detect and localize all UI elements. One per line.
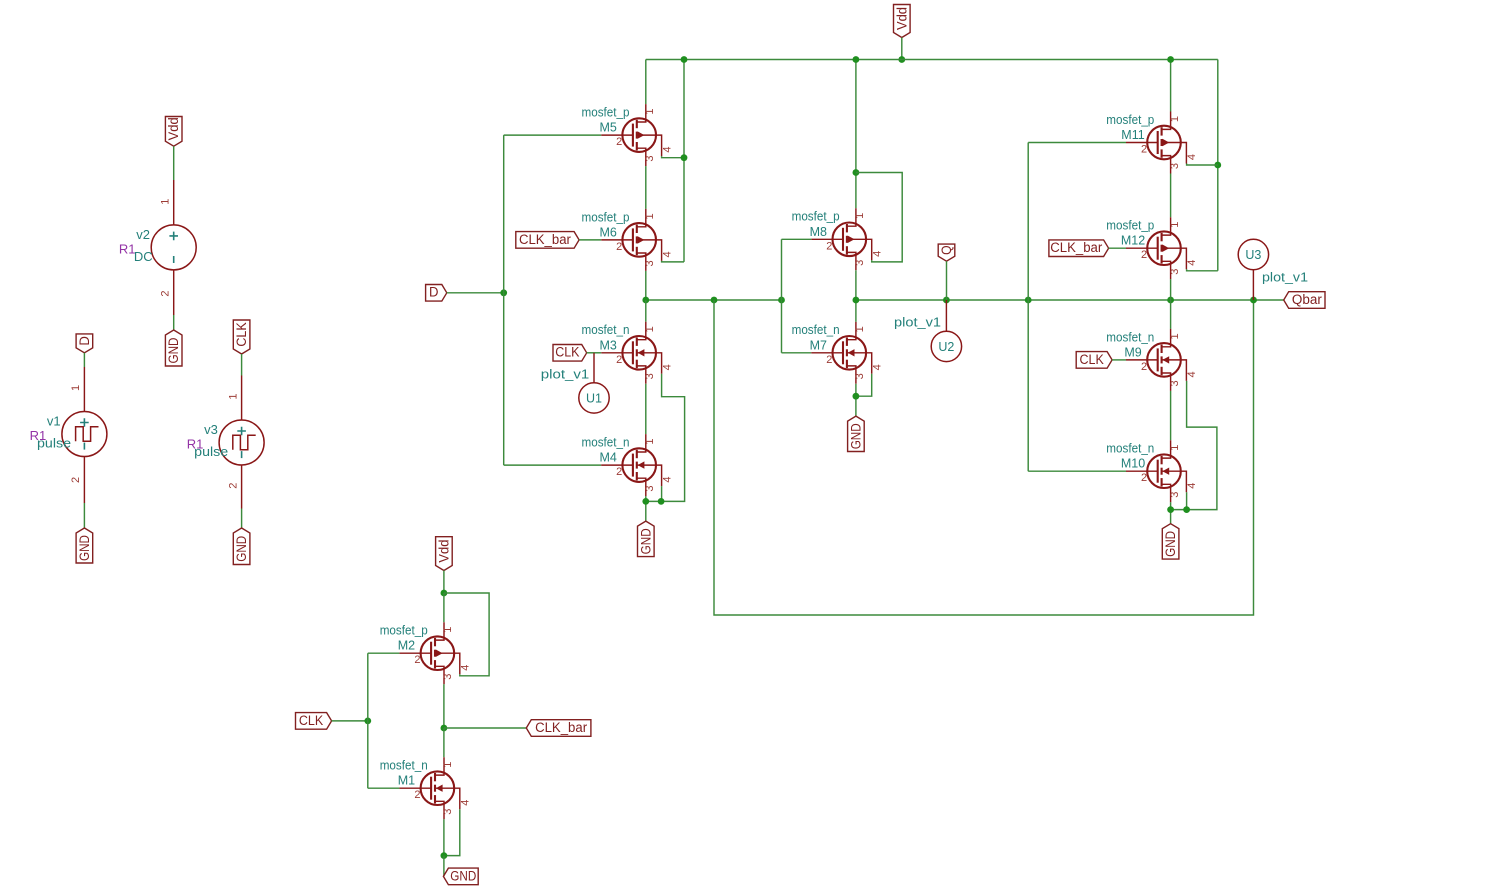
wire feedback loop xyxy=(714,300,1254,615)
svg-text:mosfet_p: mosfet_p xyxy=(380,624,428,638)
svg-text:pulse: pulse xyxy=(37,435,71,450)
svg-text:Vdd: Vdd xyxy=(166,117,181,140)
n-MOSFET M9 xyxy=(1126,329,1186,391)
wire Q/Qbar bus xyxy=(856,299,1284,301)
svg-text:mosfet_p: mosfet_p xyxy=(792,210,840,224)
svg-text:CLK_bar: CLK_bar xyxy=(1050,240,1102,255)
junction Q bus / M12-M9 xyxy=(1167,297,1174,304)
svg-text:2: 2 xyxy=(616,136,622,148)
wire rail to M11/M12 bulk xyxy=(1217,60,1219,271)
svg-text:1: 1 xyxy=(70,385,82,391)
svg-text:M9: M9 xyxy=(1124,345,1141,359)
wire M12 bulk to riser xyxy=(1187,269,1218,271)
voltage probe U3 xyxy=(1238,239,1268,300)
wire riser to M2 gate xyxy=(368,652,400,654)
svg-text:1: 1 xyxy=(442,627,454,633)
svg-text:3: 3 xyxy=(1169,269,1181,275)
svg-text:1: 1 xyxy=(854,326,866,332)
wire M7 source to GND xyxy=(855,384,857,416)
voltage source v2 xyxy=(151,225,196,270)
hierarchical label Vdd (v2) xyxy=(165,117,182,147)
wire Q label stem xyxy=(946,261,948,300)
svg-text:2: 2 xyxy=(1141,144,1147,156)
svg-text:2: 2 xyxy=(616,466,622,478)
svg-text:CLK_bar: CLK_bar xyxy=(519,232,571,247)
junction M7 source / bulk xyxy=(853,393,860,400)
wire GND node to label xyxy=(443,856,445,877)
svg-text:M12: M12 xyxy=(1121,234,1145,248)
wire rail to M11 drain xyxy=(1170,60,1172,112)
svg-text:1: 1 xyxy=(1169,445,1181,451)
p-MOSFET M5 xyxy=(601,104,661,166)
svg-text:Qbar: Qbar xyxy=(1292,292,1323,307)
n-MOSFET M4 xyxy=(601,434,661,496)
wire M6 bulk to riser xyxy=(662,261,684,262)
svg-text:4: 4 xyxy=(872,251,884,257)
svg-text:3: 3 xyxy=(644,373,656,379)
wire M4 source to GND xyxy=(645,496,647,521)
svg-text:2: 2 xyxy=(1141,361,1147,373)
junction Vdd rail / label xyxy=(898,56,905,63)
hierarchical label CLK_bar (inverter output) xyxy=(526,720,591,737)
pin 1 of v1 xyxy=(83,367,85,412)
svg-text:GND: GND xyxy=(848,423,863,449)
hierarchical label GND (M1) xyxy=(443,868,478,885)
svg-text:3: 3 xyxy=(854,373,866,379)
hierarchical label GND (v1) xyxy=(76,528,93,563)
wire CLK label to gate riser xyxy=(332,720,368,722)
junction M1 source / GND xyxy=(441,852,448,859)
n-MOSFET M7 xyxy=(811,322,871,384)
svg-text:3: 3 xyxy=(1169,163,1181,169)
wire M11-M10 gate riser xyxy=(1027,143,1029,472)
svg-text:1: 1 xyxy=(442,762,454,768)
p-MOSFET M11 xyxy=(1126,112,1186,174)
junction M5 bulk / riser xyxy=(681,154,688,161)
hierarchical label CLK (M9 gate) xyxy=(1076,352,1112,369)
wire M3 source to M4 drain xyxy=(645,384,647,434)
n-MOSFET M1 xyxy=(399,757,459,819)
voltage probe U2 xyxy=(931,300,961,362)
svg-text:2: 2 xyxy=(826,240,832,252)
junction D / gate riser xyxy=(500,289,507,296)
svg-text:3: 3 xyxy=(644,486,656,492)
svg-text:mosfet_n: mosfet_n xyxy=(582,323,630,337)
wire riser to M8 gate xyxy=(782,238,812,240)
svg-text:M2: M2 xyxy=(398,639,415,653)
voltage probe U1 xyxy=(579,353,609,413)
wire D label to gate riser xyxy=(447,292,504,294)
wire M8/M7 gate riser xyxy=(781,239,783,352)
svg-text:plot_v1: plot_v1 xyxy=(894,315,941,330)
junction CLK / gate riser xyxy=(364,718,371,725)
p-MOSFET M12 xyxy=(1126,217,1186,279)
junction Q bus / feedback xyxy=(1250,297,1257,304)
svg-text:4: 4 xyxy=(460,800,472,806)
svg-text:4: 4 xyxy=(1186,260,1198,266)
svg-text:1: 1 xyxy=(854,213,866,219)
wire Vdd label to node xyxy=(443,571,445,594)
svg-text:GND: GND xyxy=(234,536,249,562)
svg-text:M3: M3 xyxy=(600,338,617,352)
svg-text:pulse: pulse xyxy=(194,444,228,459)
wire Q bus to M9 drain xyxy=(1170,300,1172,329)
wire M7 bulk to source xyxy=(856,374,872,396)
svg-text:M7: M7 xyxy=(810,338,827,352)
svg-text:3: 3 xyxy=(644,260,656,266)
svg-text:2: 2 xyxy=(1141,249,1147,261)
wire riser to M10 gate xyxy=(1028,470,1126,472)
wire Vdd rail xyxy=(646,59,1218,61)
junction M4 source / GND xyxy=(642,498,649,505)
svg-text:1: 1 xyxy=(644,109,656,115)
svg-text:Vdd: Vdd xyxy=(436,540,451,563)
svg-text:2: 2 xyxy=(616,241,622,253)
svg-text:D: D xyxy=(429,285,439,300)
wire M5-M4 gate riser xyxy=(503,135,505,465)
junction rail / M8 drain xyxy=(853,56,860,63)
hierarchical label GND (M4) xyxy=(638,521,655,557)
svg-text:M11: M11 xyxy=(1121,128,1144,142)
hierarchical label Qbar xyxy=(1284,292,1325,309)
svg-text:3: 3 xyxy=(442,809,454,815)
wire Vdd to v2 pin 1 xyxy=(173,146,175,180)
wire Vdd label stem xyxy=(901,38,903,60)
svg-text:mosfet_p: mosfet_p xyxy=(582,210,630,224)
svg-text:1: 1 xyxy=(644,439,656,445)
wire M10 bulk to ground node xyxy=(1186,492,1188,509)
junction rail / M11 drain xyxy=(1167,56,1174,63)
wire master node bus xyxy=(646,299,782,301)
svg-text:1: 1 xyxy=(160,199,172,205)
hierarchical label GND (M7) xyxy=(848,416,865,451)
hierarchical label D (v1) xyxy=(76,334,93,353)
svg-text:M1: M1 xyxy=(398,774,415,788)
svg-text:1: 1 xyxy=(644,213,656,219)
svg-text:2: 2 xyxy=(70,477,82,483)
svg-text:U1: U1 xyxy=(586,391,602,405)
wire M1 source to GND node xyxy=(443,819,445,855)
svg-text:1: 1 xyxy=(1169,222,1181,228)
wire M8 bulk loop to drain xyxy=(856,173,902,262)
junction CLK_bar node xyxy=(441,725,448,732)
svg-text:M5: M5 xyxy=(600,121,617,135)
wire riser to M5 gate xyxy=(504,134,602,136)
junction rail / bulk riser xyxy=(681,56,688,63)
svg-text:2: 2 xyxy=(414,789,420,801)
wire M11 bulk to riser xyxy=(1187,164,1218,166)
svg-text:Vdd: Vdd xyxy=(894,7,909,30)
svg-text:1: 1 xyxy=(227,394,239,400)
svg-text:2: 2 xyxy=(414,654,420,666)
svg-text:plot_v1: plot_v1 xyxy=(541,367,590,382)
wire D to v1 pin 1 xyxy=(83,353,85,367)
junction M8 drain / bulk loop xyxy=(853,169,860,176)
wire CLK_bar to M6 gate xyxy=(579,239,601,241)
junction Vdd node xyxy=(441,590,448,597)
hierarchical label CLK_bar (M12 gate) xyxy=(1049,240,1109,257)
pin 1 of v2 xyxy=(173,180,175,225)
junction node bus / M7-M8 gates xyxy=(778,297,785,304)
junction M10 source / GND xyxy=(1167,506,1174,513)
svg-text:mosfet_n: mosfet_n xyxy=(380,759,428,773)
p-MOSFET M8 xyxy=(811,208,871,270)
voltage source v3 xyxy=(219,420,264,465)
svg-text:GND: GND xyxy=(77,535,92,561)
svg-text:mosfet_p: mosfet_p xyxy=(1106,113,1154,127)
svg-text:mosfet_n: mosfet_n xyxy=(1106,442,1154,456)
p-MOSFET M2 xyxy=(399,622,459,684)
svg-text:D: D xyxy=(77,336,92,346)
wire M2-M1 gate riser xyxy=(367,653,369,788)
junction M10 bulk / GND xyxy=(1183,506,1190,513)
svg-text:mosfet_n: mosfet_n xyxy=(582,436,630,450)
wire M5 bulk to riser xyxy=(662,156,684,158)
svg-text:1: 1 xyxy=(644,326,656,332)
svg-text:GND: GND xyxy=(450,868,476,883)
wire M9 source to M10 drain xyxy=(1170,391,1172,440)
svg-text:M10: M10 xyxy=(1121,457,1145,471)
svg-text:plot_v1: plot_v1 xyxy=(1262,270,1308,285)
wire v3 pin 2 to GND xyxy=(241,509,243,529)
svg-text:3: 3 xyxy=(442,674,454,680)
wire CLK to M9 gate xyxy=(1112,359,1126,361)
wire CLK_bar node to label xyxy=(444,727,526,729)
svg-text:CLK: CLK xyxy=(234,322,249,346)
svg-text:GND: GND xyxy=(638,528,653,554)
svg-text:CLK: CLK xyxy=(299,713,323,728)
svg-text:GND: GND xyxy=(1163,531,1178,557)
wire CLK to v3 pin 1 xyxy=(241,354,243,376)
hierarchical label CLK (v3) xyxy=(233,320,250,354)
wire node bus to M3 drain xyxy=(645,300,647,322)
wire riser to M11 gate xyxy=(1028,142,1126,144)
svg-text:mosfet_p: mosfet_p xyxy=(582,106,630,120)
wire rail to M5 drain xyxy=(645,60,647,105)
wire M3 bulk down to ground node xyxy=(646,374,685,502)
pin 2 of v3 xyxy=(241,465,243,509)
svg-text:2: 2 xyxy=(1141,472,1147,484)
junction M11 bulk tap xyxy=(1214,162,1221,169)
junction Q bus / M8-M7 xyxy=(853,297,860,304)
voltage source v1 xyxy=(62,412,107,457)
svg-text:mosfet_n: mosfet_n xyxy=(1106,330,1154,344)
svg-text:2: 2 xyxy=(160,290,172,296)
svg-text:4: 4 xyxy=(1186,371,1198,377)
junction M4 bulk / GND xyxy=(658,498,665,505)
wire riser to M4 gate xyxy=(504,464,602,466)
pin 2 of v2 xyxy=(173,269,175,315)
wire M12 source to Q bus xyxy=(1170,279,1172,300)
svg-text:3: 3 xyxy=(854,260,866,266)
svg-text:v3: v3 xyxy=(204,422,218,437)
wire rail to M5/M6 bulk xyxy=(683,60,685,262)
wire M11 source to M12 drain xyxy=(1170,174,1172,218)
hierarchical label GND (v2) xyxy=(165,330,182,366)
wire M5 source to M6 drain xyxy=(645,166,647,209)
svg-text:DC: DC xyxy=(134,249,153,264)
wire v1 pin 2 to GND xyxy=(83,503,85,528)
svg-text:CLK_bar: CLK_bar xyxy=(535,720,587,735)
wire v2 pin 2 to GND xyxy=(173,315,175,330)
hierarchical label GND (v3) xyxy=(233,528,250,565)
wire M6 source to node bus xyxy=(645,271,647,300)
svg-text:2: 2 xyxy=(616,354,622,366)
svg-text:M4: M4 xyxy=(600,451,617,465)
wire riser to M7 gate xyxy=(782,352,812,354)
junction Q bus / Q label xyxy=(943,297,950,304)
svg-text:U2: U2 xyxy=(938,340,954,354)
svg-text:4: 4 xyxy=(661,364,673,370)
hierarchical label Q xyxy=(938,244,955,261)
svg-text:4: 4 xyxy=(661,147,673,153)
svg-text:v2: v2 xyxy=(136,227,150,242)
svg-text:1: 1 xyxy=(1169,333,1181,339)
svg-text:U3: U3 xyxy=(1245,248,1261,262)
svg-text:Q: Q xyxy=(939,245,954,255)
svg-text:v1: v1 xyxy=(47,414,61,429)
wire M2 bulk loop to Vdd node xyxy=(444,593,489,676)
junction node bus / feedback xyxy=(711,297,718,304)
wire M2 source to CLK_bar node xyxy=(443,684,445,728)
svg-text:CLK: CLK xyxy=(1080,352,1104,367)
svg-text:4: 4 xyxy=(872,364,884,370)
svg-text:2: 2 xyxy=(826,354,832,366)
svg-text:mosfet_p: mosfet_p xyxy=(1106,219,1154,233)
n-MOSFET M10 xyxy=(1126,440,1186,502)
wire M1 bulk to GND node xyxy=(444,809,460,855)
hierarchical label D (input) xyxy=(426,285,447,302)
wire M9 bulk down to ground node xyxy=(1171,381,1217,510)
svg-text:4: 4 xyxy=(661,477,673,483)
pin 2 of v1 xyxy=(83,456,85,503)
svg-text:4: 4 xyxy=(1186,483,1198,489)
svg-text:3: 3 xyxy=(1169,492,1181,498)
hierarchical label Vdd (inverter) xyxy=(436,537,453,571)
svg-text:2: 2 xyxy=(227,483,239,489)
svg-text:M6: M6 xyxy=(600,225,617,239)
svg-text:GND: GND xyxy=(166,337,181,363)
svg-text:4: 4 xyxy=(460,665,472,671)
svg-text:3: 3 xyxy=(1169,380,1181,386)
wire M8 source to Q bus xyxy=(855,270,857,300)
svg-text:M8: M8 xyxy=(810,225,827,239)
hierarchical label CLK (M3 gate) xyxy=(553,345,587,362)
svg-text:4: 4 xyxy=(661,251,673,257)
hierarchical label GND (M10) xyxy=(1162,524,1179,559)
p-MOSFET M6 xyxy=(601,209,661,271)
junction Q bus / M11-M10 gates xyxy=(1025,297,1032,304)
svg-text:1: 1 xyxy=(1169,116,1181,122)
pin 1 of v3 xyxy=(241,376,243,421)
wire CLK_bar node to M1 drain xyxy=(443,728,445,757)
n-MOSFET M3 xyxy=(601,322,661,384)
svg-text:3: 3 xyxy=(644,156,656,162)
wire rail to M8 drain xyxy=(855,60,857,209)
hierarchical label Vdd (top) xyxy=(894,5,911,38)
svg-text:4: 4 xyxy=(1186,154,1198,160)
wire CLK to M3 gate xyxy=(587,352,602,354)
wire riser to M1 gate xyxy=(368,787,400,789)
wire M10 source to GND xyxy=(1170,502,1172,524)
wire CLK_bar to M12 gate xyxy=(1109,247,1126,249)
svg-text:CLK: CLK xyxy=(555,345,579,360)
hierarchical label CLK (inverter input) xyxy=(296,713,332,730)
junction node bus / M6-M3 xyxy=(642,297,649,304)
svg-text:mosfet_n: mosfet_n xyxy=(792,323,840,337)
wire Q bus to M7 drain xyxy=(855,300,857,322)
wire Vdd node to M2 drain xyxy=(443,593,445,622)
wire M4 bulk to ground node xyxy=(661,486,663,501)
hierarchical label CLK_bar (M6 gate) xyxy=(516,232,579,249)
